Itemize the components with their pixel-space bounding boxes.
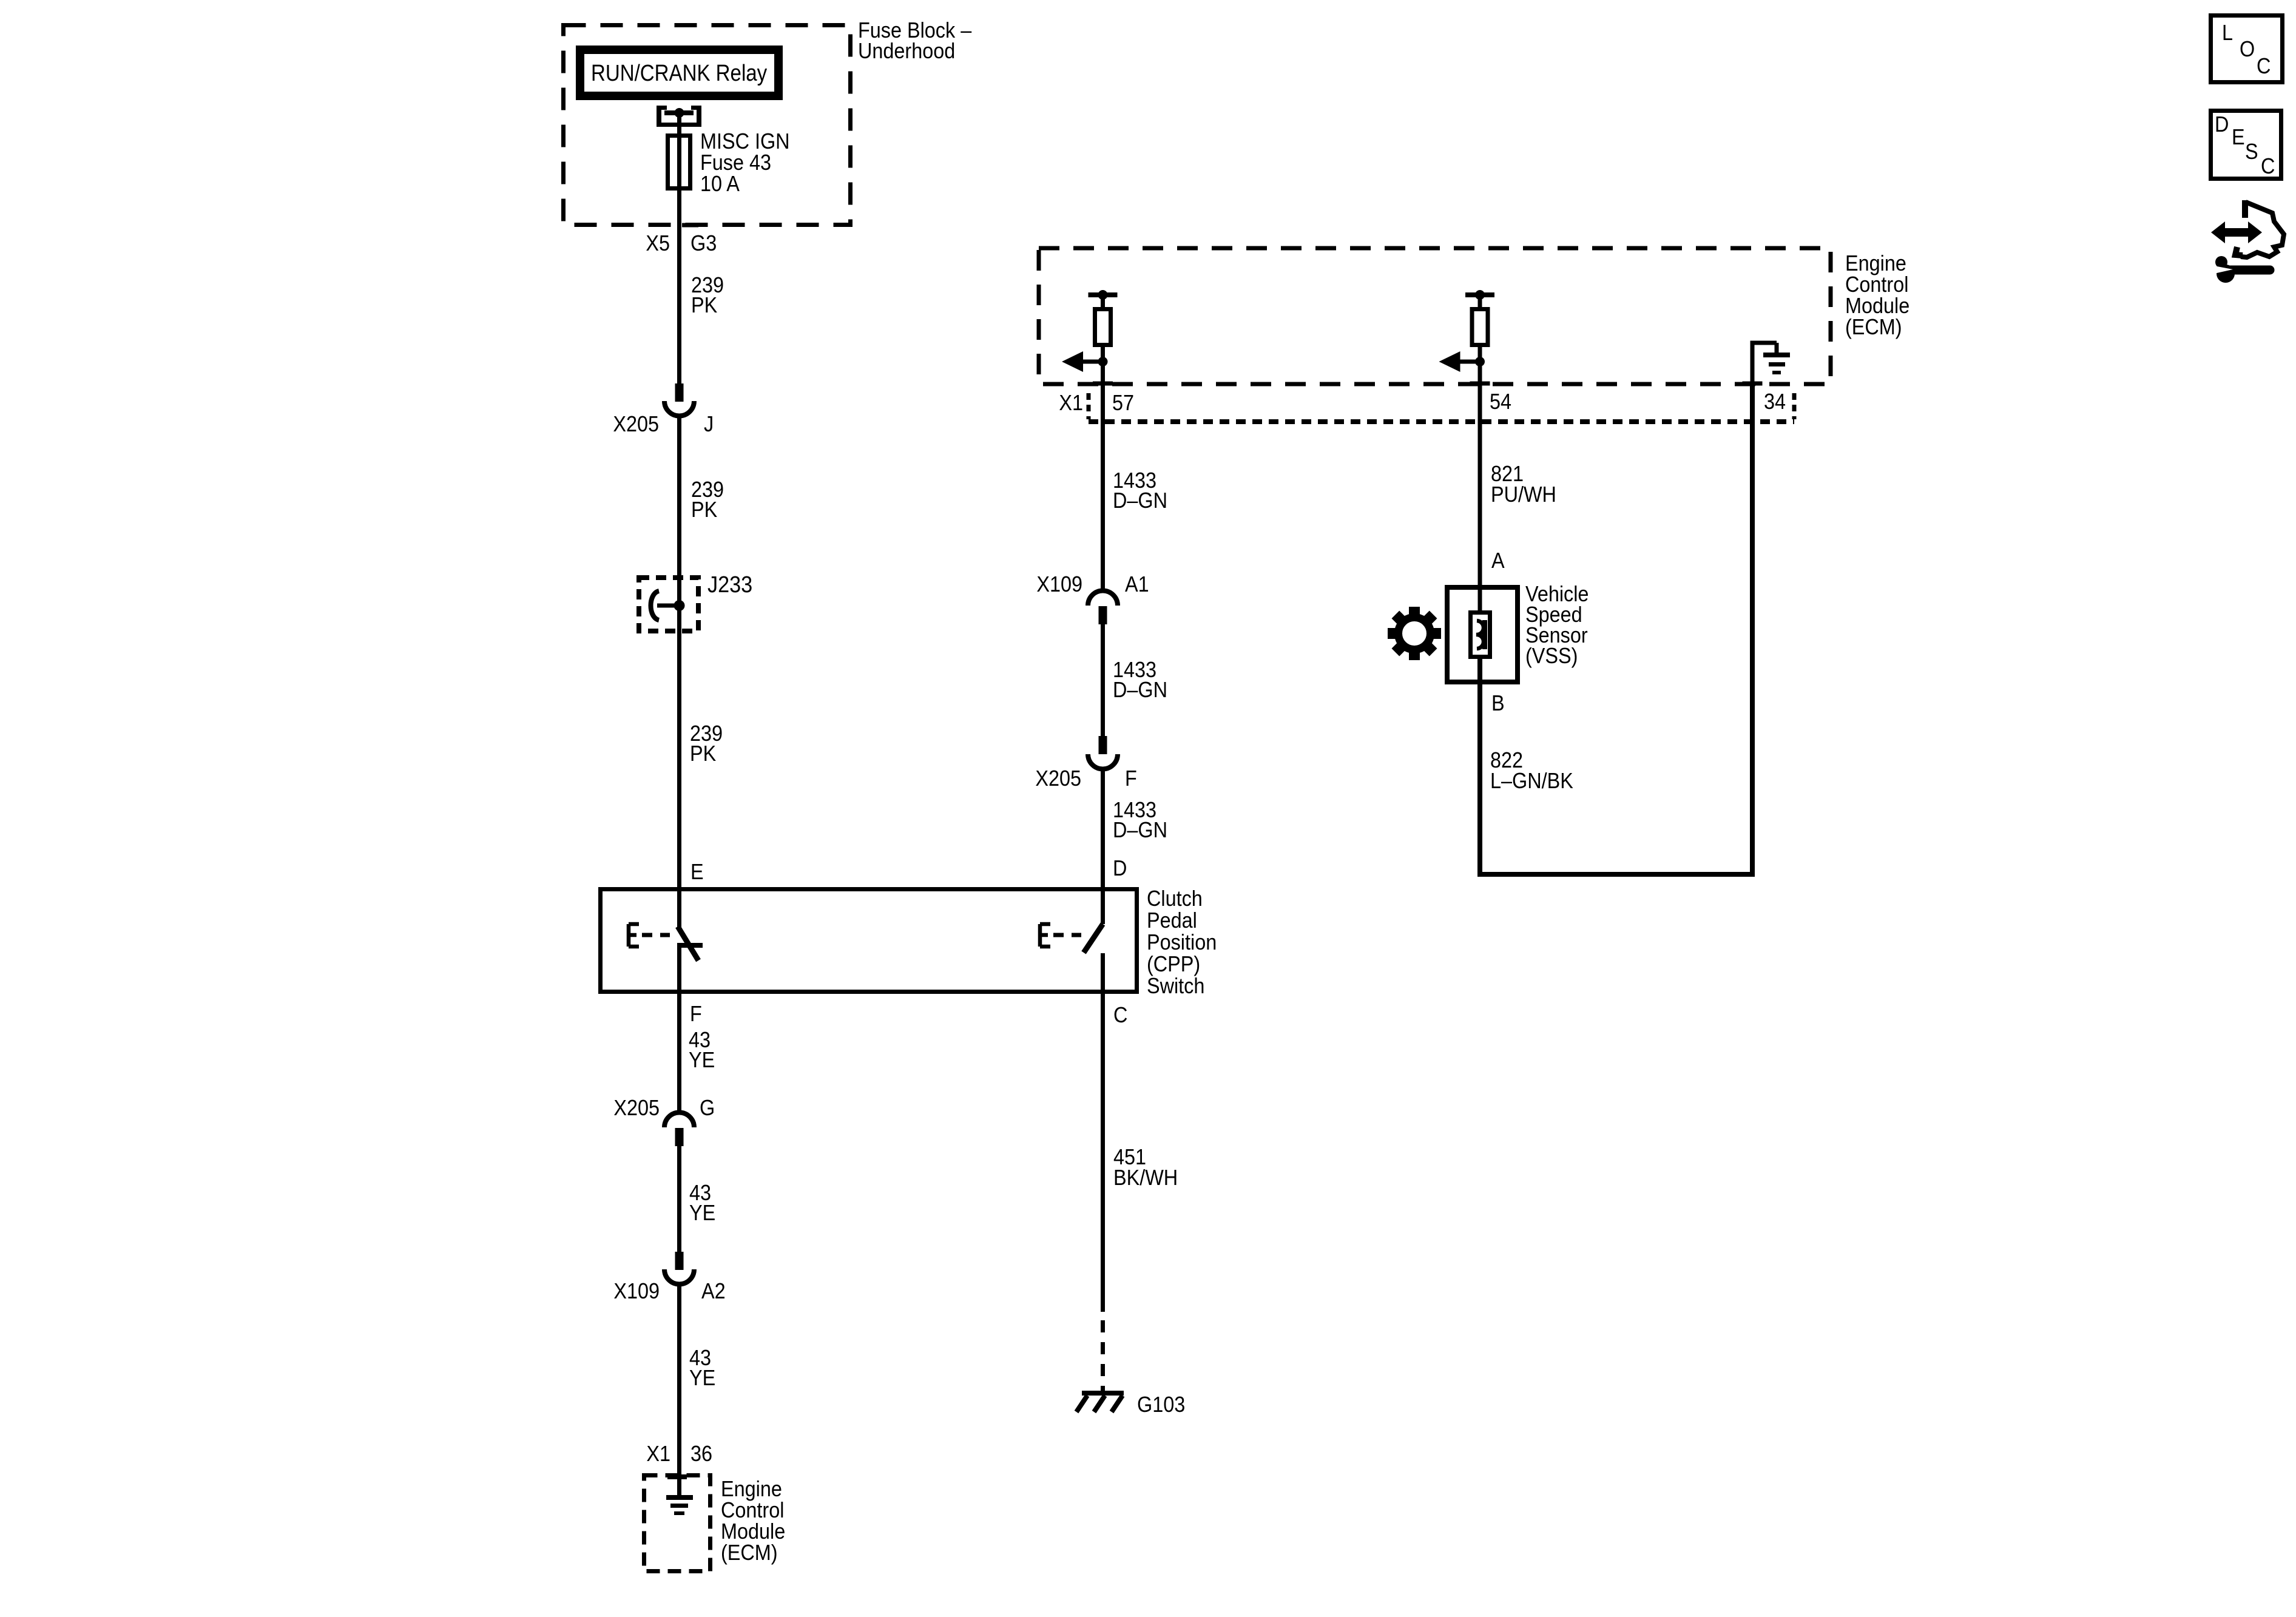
svg-text:PK: PK: [691, 293, 717, 317]
svg-text:Fuse 43: Fuse 43: [700, 150, 771, 175]
svg-text:L: L: [2222, 21, 2233, 45]
relay output terminal bracket: [657, 123, 701, 127]
svg-text:B: B: [1491, 691, 1505, 715]
svg-text:F: F: [1125, 766, 1137, 791]
driver arrow pin 54: [1460, 360, 1481, 364]
svg-text:(ECM): (ECM): [721, 1541, 778, 1565]
svg-text:Control: Control: [1845, 272, 1908, 297]
node splice dot J233: [674, 600, 685, 611]
fuse block - underhood dashed box: [564, 25, 851, 225]
svg-text:Control: Control: [721, 1498, 784, 1522]
svg-text:36: 36: [690, 1442, 712, 1466]
svg-text:X205: X205: [613, 412, 659, 436]
svg-text:57: 57: [1112, 391, 1134, 415]
DESC link box: [2211, 111, 2281, 179]
wire 43 YE X205 to X109: [677, 1146, 681, 1252]
svg-text:PK: PK: [690, 741, 716, 766]
wire 1433 D-GN X109 to X205: [1101, 624, 1105, 736]
svg-text:Position: Position: [1147, 930, 1217, 954]
svg-text:Engine: Engine: [1845, 251, 1906, 275]
svg-text:YE: YE: [689, 1201, 715, 1225]
svg-text:C: C: [2261, 154, 2275, 178]
wire 239 PK X205 to CPP switch: [677, 416, 681, 928]
svg-text:X5: X5: [646, 231, 670, 255]
svg-text:S: S: [2245, 140, 2258, 164]
splice J233 dashed box: [639, 578, 698, 631]
LOC link box: [2211, 16, 2283, 83]
svg-text:J: J: [704, 412, 714, 436]
svg-text:(CPP): (CPP): [1147, 952, 1200, 976]
splice crimp hook: [651, 591, 660, 620]
ground G103 symbol: [1082, 1391, 1124, 1396]
module swap icon housing outline: [2242, 200, 2248, 218]
switch S1 left actuator linkage: [629, 924, 639, 947]
svg-text:Module: Module: [1845, 294, 1909, 318]
driver U2 output for pin 54: [1465, 292, 1494, 297]
connector X205 pin G (arch + terminal bar): [664, 1112, 694, 1127]
pin tick 34: [1743, 382, 1763, 386]
svg-text:Module: Module: [721, 1519, 785, 1544]
wire 451 BK/WH CPP C to G103 (dashed tail): [1101, 1320, 1105, 1391]
svg-text:G3: G3: [690, 231, 717, 255]
svg-text:10 A: 10 A: [700, 172, 740, 196]
svg-text:PK: PK: [691, 498, 717, 522]
svg-text:X205: X205: [613, 1096, 660, 1120]
svg-text:YE: YE: [689, 1048, 715, 1072]
svg-text:Underhood: Underhood: [858, 39, 955, 63]
svg-text:A2: A2: [701, 1279, 726, 1303]
gear icon: [1388, 607, 1441, 660]
module swap icon double arrow: [2211, 221, 2262, 243]
svg-text:G: G: [700, 1096, 715, 1120]
svg-text:X109: X109: [1036, 572, 1082, 596]
fuse F43 MISC IGN 10A: [668, 136, 690, 189]
svg-text:C: C: [1113, 1003, 1127, 1027]
svg-text:D: D: [2215, 112, 2229, 137]
internal ground at pin 34: [1751, 343, 1755, 383]
wire 1433 D-GN pin 57 to X109: [1101, 383, 1105, 592]
svg-text:E: E: [690, 860, 704, 884]
driver arrow pin 57: [1082, 360, 1103, 364]
wire from relay through fuse to X5: [677, 113, 681, 251]
wire through left switch lower: [677, 945, 681, 1112]
wire 821 PU/WH pin 54 to VSS A: [1478, 383, 1482, 612]
svg-text:Engine: Engine: [721, 1477, 782, 1501]
switch S1 left contact bar: [677, 943, 703, 948]
svg-text:Switch: Switch: [1147, 974, 1204, 998]
svg-text:YE: YE: [689, 1366, 715, 1390]
svg-text:(VSS): (VSS): [1525, 644, 1578, 668]
pin tick X5: [682, 223, 698, 228]
connector X109 pin A1 (arch + terminal bar): [1088, 590, 1118, 606]
splice branch stub: [657, 604, 680, 608]
svg-text:D–GN: D–GN: [1113, 488, 1167, 513]
connector X109 pin A2 (terminal bar + cup): [675, 1252, 684, 1270]
svg-text:Clutch: Clutch: [1147, 886, 1203, 911]
internal ground at pin 36: [666, 1495, 693, 1500]
svg-text:X1: X1: [646, 1442, 670, 1466]
switch S1 left blade: [678, 927, 698, 960]
svg-text:Pedal: Pedal: [1147, 908, 1197, 933]
svg-text:L–GN/BK: L–GN/BK: [1490, 769, 1573, 793]
svg-text:G103: G103: [1137, 1393, 1185, 1417]
svg-text:F: F: [690, 1002, 702, 1026]
svg-text:O: O: [2240, 37, 2255, 61]
svg-text:X1: X1: [1059, 391, 1083, 415]
svg-text:MISC IGN: MISC IGN: [700, 129, 790, 154]
wire 43 YE X109 to ECM pin 36: [677, 1283, 681, 1496]
wire 822 L-GN/BK VSS B to ECM pin 34: [1480, 386, 1752, 874]
clutch pedal position CPP switch box: [601, 890, 1137, 992]
svg-text:J233: J233: [707, 571, 752, 597]
svg-text:A1: A1: [1125, 572, 1149, 596]
relay K RUN/CRANK Relay box: [580, 50, 778, 96]
switch S2 right lower contact: [1101, 953, 1105, 1312]
connector X205 pin J (terminal bar + cup): [675, 383, 684, 402]
wire 239 PK fuse to X205: [677, 251, 681, 383]
switch S2 right blade (open): [1084, 924, 1103, 953]
svg-text:A: A: [1491, 549, 1505, 573]
connector X1 dotted bracket: [1087, 393, 1091, 419]
VSS sensing element box: [1471, 613, 1490, 657]
svg-text:RUN/CRANK Relay: RUN/CRANK Relay: [591, 60, 767, 86]
svg-text:C: C: [2257, 54, 2271, 78]
vehicle speed sensor VSS box: [1447, 587, 1518, 682]
svg-text:54: 54: [1490, 390, 1511, 414]
switch S2 right actuator linkage: [1040, 924, 1050, 947]
VSS element squiggle: [1476, 621, 1484, 649]
svg-text:X205: X205: [1035, 766, 1081, 791]
svg-text:D: D: [1113, 856, 1127, 880]
svg-text:(ECM): (ECM): [1845, 315, 1902, 339]
wrench icon: [2217, 265, 2235, 283]
svg-text:E: E: [2232, 125, 2245, 149]
driver U1 output for pin 57: [1089, 292, 1118, 297]
pin tick 57: [1093, 382, 1113, 386]
svg-text:D–GN: D–GN: [1113, 678, 1167, 702]
svg-text:X109: X109: [613, 1279, 660, 1303]
connector X205 pin F (terminal bar + cup): [1099, 736, 1107, 754]
svg-text:PU/WH: PU/WH: [1491, 482, 1556, 507]
pin tick 36: [667, 1474, 687, 1479]
svg-text:34: 34: [1764, 390, 1786, 414]
VSS element bar: [1482, 620, 1487, 649]
engine control module ECM dashed box: [1039, 248, 1831, 384]
pin tick 54: [1470, 382, 1490, 386]
engine control module ECM bottom dashed box: [644, 1476, 711, 1571]
svg-text:D–GN: D–GN: [1113, 818, 1167, 842]
svg-text:BK/WH: BK/WH: [1113, 1166, 1178, 1190]
wire 1433 D-GN X205 to CPP switch: [1101, 768, 1105, 924]
node relay pin dot: [675, 108, 684, 118]
